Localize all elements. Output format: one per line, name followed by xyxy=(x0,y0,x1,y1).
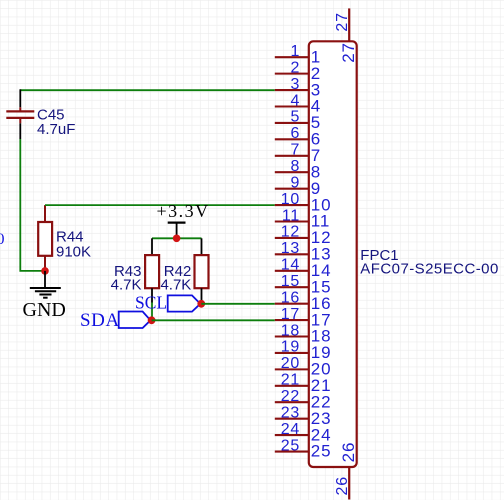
pin 21 stub xyxy=(275,385,309,387)
svg-text:12: 12 xyxy=(281,224,301,241)
wire cap lead bottom black xyxy=(19,123,21,139)
svg-text:26: 26 xyxy=(334,476,351,496)
svg-text:4.7K: 4.7K xyxy=(111,276,142,293)
pin 20 stub xyxy=(275,368,309,370)
pin 23 stub xyxy=(275,418,309,420)
svg-text:1: 1 xyxy=(290,43,300,60)
pin 18 stub xyxy=(275,335,309,337)
wire R42 bottom lead black xyxy=(201,288,203,304)
svg-text:11: 11 xyxy=(282,207,300,224)
pin 24 stub xyxy=(275,434,309,436)
resistor R43 xyxy=(145,255,159,288)
junction R44/GND xyxy=(41,267,49,275)
pin 13 stub xyxy=(275,253,309,255)
svg-text:27: 27 xyxy=(334,12,351,32)
pin 6 stub xyxy=(275,138,309,140)
netflag SCL xyxy=(168,295,201,311)
svg-text:20: 20 xyxy=(281,355,301,372)
pin 26 stub xyxy=(348,467,350,500)
svg-text:18: 18 xyxy=(281,322,301,339)
wire left vertical down to gnd row xyxy=(20,139,45,271)
svg-text:AFC07-S25ECC-00: AFC07-S25ECC-00 xyxy=(360,260,498,277)
svg-text:GND: GND xyxy=(23,299,66,321)
svg-text:14: 14 xyxy=(281,257,301,274)
pin 17 stub xyxy=(275,319,309,321)
resistor R42 xyxy=(195,255,209,288)
connector FPC1 body xyxy=(309,41,357,467)
svg-text:13: 13 xyxy=(281,240,301,257)
svg-text:26: 26 xyxy=(339,442,358,463)
svg-text:25: 25 xyxy=(281,437,301,454)
pin 11 stub xyxy=(275,220,309,222)
pin 7 stub xyxy=(275,155,309,157)
svg-text:22: 22 xyxy=(281,388,301,405)
wire net C45 to pin3 xyxy=(20,89,274,91)
svg-text:24: 24 xyxy=(281,421,301,438)
pin 27 stub xyxy=(348,8,350,41)
svg-text:SDA: SDA xyxy=(80,310,120,331)
wire SCL to pin16 xyxy=(201,303,274,305)
svg-text:2: 2 xyxy=(290,59,300,76)
wire cap lead top black xyxy=(19,89,21,107)
svg-text:16: 16 xyxy=(281,289,301,306)
pin 10 stub xyxy=(275,204,309,206)
svg-text:6: 6 xyxy=(290,125,300,142)
netflag SDA xyxy=(119,312,151,329)
svg-text:5: 5 xyxy=(290,109,300,126)
svg-text:3: 3 xyxy=(290,76,300,93)
pin 12 stub xyxy=(275,237,309,239)
svg-text:910K: 910K xyxy=(56,243,91,260)
svg-text:21: 21 xyxy=(281,372,301,389)
svg-text:4.7K: 4.7K xyxy=(160,276,191,293)
pin 5 stub xyxy=(275,122,309,124)
svg-text:10: 10 xyxy=(281,191,301,208)
svg-text:9: 9 xyxy=(290,174,300,191)
ground xyxy=(30,288,61,298)
power symbol stem xyxy=(176,223,178,239)
svg-text:8: 8 xyxy=(290,158,300,175)
pin 25 stub xyxy=(275,450,309,452)
wire R43 bottom green xyxy=(151,303,153,321)
svg-text:19: 19 xyxy=(281,339,301,356)
wire R43 top lead black xyxy=(151,238,153,255)
svg-text:7: 7 xyxy=(290,142,300,159)
svg-text:SCL: SCL xyxy=(135,292,167,312)
resistor R44 xyxy=(38,205,52,271)
wire R42 top lead black xyxy=(201,238,203,255)
pin 22 stub xyxy=(275,401,309,403)
pin 1 stub xyxy=(275,56,309,58)
svg-text:15: 15 xyxy=(281,273,301,290)
svg-text:4: 4 xyxy=(290,92,300,109)
svg-text:0: 0 xyxy=(0,231,5,248)
svg-text:4.7uF: 4.7uF xyxy=(37,121,75,138)
pin 16 stub xyxy=(275,303,309,305)
wire gnd black xyxy=(44,271,46,287)
svg-text:+3.3V: +3.3V xyxy=(157,201,210,221)
pin 15 stub xyxy=(275,286,309,288)
pin 19 stub xyxy=(275,352,309,354)
wire between resistor tops xyxy=(152,237,202,239)
pin 9 stub xyxy=(275,188,309,190)
pin 14 stub xyxy=(275,270,309,272)
capacitor C45 xyxy=(6,107,34,123)
pin 3 stub xyxy=(275,89,309,91)
pin 8 stub xyxy=(275,171,309,173)
svg-text:25: 25 xyxy=(311,442,332,461)
junction +3.3V xyxy=(173,235,181,243)
pin 4 stub xyxy=(275,105,309,107)
junction SCL xyxy=(197,300,205,308)
svg-text:27: 27 xyxy=(339,42,358,63)
wire R43 bottom lead black xyxy=(151,288,153,302)
wire R44 top to pin10 xyxy=(45,204,275,206)
svg-text:17: 17 xyxy=(281,306,301,323)
pin 2 stub xyxy=(275,73,309,75)
power symbol bar xyxy=(168,222,186,224)
svg-text:23: 23 xyxy=(281,404,301,421)
wire SDA to pin17 xyxy=(152,319,275,321)
junction SDA xyxy=(148,316,156,324)
